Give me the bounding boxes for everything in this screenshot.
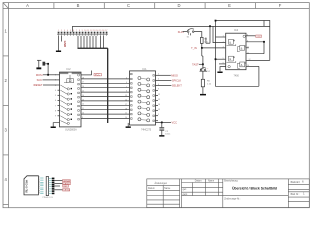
svg-text:F: F	[279, 3, 282, 8]
junction dot S2	[202, 63, 204, 65]
svg-text:74HC273: 74HC273	[141, 128, 152, 131]
net label SENSE1	[63, 180, 71, 182]
ground (IC2)	[51, 127, 56, 129]
junction dot rail A	[209, 25, 211, 27]
svg-text:/RESET: /RESET	[33, 83, 43, 87]
svg-text:DATA2: DATA2	[63, 189, 71, 192]
switch S1	[187, 29, 194, 36]
net label SENSE2	[63, 182, 71, 184]
gate A	[229, 39, 234, 44]
svg-text:100n: 100n	[165, 134, 171, 136]
IC1 right pin stubs	[156, 90, 159, 120]
switch S2 (reed)	[200, 68, 208, 71]
IC1	[130, 67, 156, 131]
svg-text:VCC: VCC	[95, 74, 100, 77]
wire label to switch	[183, 31, 188, 33]
wire R5 to gnd	[202, 87, 204, 94]
vertical chain down	[201, 48, 203, 56]
svg-text:14: 14	[125, 100, 127, 102]
svg-text:Name: Name	[208, 180, 215, 182]
junction dot IC4 row3	[215, 58, 217, 60]
bus horizontal	[78, 47, 108, 49]
svg-text:SELEKT: SELEKT	[172, 84, 182, 88]
channel wires IC2 to IC1	[81, 79, 130, 119]
rail A wire (vcc rail)	[73, 26, 270, 31]
wire label to dot	[199, 63, 203, 65]
IC2 left pin stubs	[58, 75, 60, 116]
svg-text:TAST: TAST	[192, 62, 199, 66]
frame left band line	[8, 3, 10, 208]
svg-text:1: 1	[223, 36, 224, 38]
IC1 internal circles	[138, 77, 150, 122]
svg-text:IC4: IC4	[234, 28, 239, 32]
svg-text:12: 12	[90, 30, 92, 32]
frame top band dividers	[53, 3, 55, 9]
wire to IC4 pin	[202, 47, 226, 49]
svg-text:Zeichnungs-Nr.:: Zeichnungs-Nr.:	[224, 198, 241, 201]
pad wires + red labels	[54, 181, 62, 190]
junction dot	[215, 20, 217, 22]
svg-text:gez.: gez.	[183, 189, 188, 191]
svg-text:8: 8	[126, 91, 127, 93]
svg-text:Blatt Nr.:: Blatt Nr.:	[291, 193, 300, 196]
module pin numbers	[39, 177, 40, 195]
frame top band line	[3, 8, 309, 10]
pad squares	[52, 178, 55, 195]
IC1 inner right pin squares	[153, 75, 155, 122]
svg-text:IC1: IC1	[143, 67, 148, 71]
connector pin numbers (red)	[58, 30, 107, 32]
svg-text:14: 14	[96, 30, 98, 32]
svg-text:15: 15	[99, 30, 101, 32]
IC4 right wires	[246, 21, 269, 67]
wire S2 to R5	[202, 72, 204, 80]
IC2 channel dots	[71, 88, 72, 120]
svg-text:ULN2803A: ULN2803A	[65, 128, 77, 131]
gate D	[240, 62, 245, 67]
svg-text:VCC: VCC	[172, 121, 178, 125]
svg-text:4: 4	[223, 47, 224, 49]
svg-text:1: 1	[58, 30, 59, 32]
IC4 gnd	[220, 67, 226, 72]
svg-text:16: 16	[102, 30, 104, 32]
IC2 left pin numbers	[55, 75, 57, 118]
IC4 left wires	[213, 26, 225, 64]
wire R4 down to dot	[201, 43, 203, 48]
svg-text:7400: 7400	[234, 75, 240, 78]
svg-text:18: 18	[125, 108, 127, 110]
svg-text:MOSI: MOSI	[36, 73, 43, 77]
svg-text:5: 5	[223, 58, 224, 60]
svg-text:D: D	[177, 3, 180, 8]
svg-text:7: 7	[126, 86, 127, 88]
IC2 input wires + red labels	[43, 75, 58, 85]
IC1 right pin numbers	[158, 73, 161, 116]
svg-text:3: 3	[126, 78, 127, 80]
junction dot IC4	[263, 41, 265, 43]
resistor R5	[201, 79, 204, 87]
svg-text:6: 6	[73, 30, 74, 32]
svg-text:SCK: SCK	[37, 78, 43, 82]
long net wire to gate output	[216, 26, 259, 86]
module pin stubs (teal)	[40, 178, 43, 194]
svg-text:C: C	[127, 3, 130, 8]
svg-text:11: 11	[125, 113, 127, 115]
svg-text:T_IN: T_IN	[191, 46, 197, 50]
transistor T1 marks	[205, 38, 207, 44]
jumper symbol near IC2	[36, 60, 49, 75]
svg-text:gepr.: gepr.	[183, 193, 188, 196]
svg-text:SPICLK: SPICLK	[172, 79, 181, 83]
svg-text:9: 9	[223, 63, 224, 65]
frame left band dividers	[3, 55, 9, 57]
svg-text:11: 11	[87, 30, 89, 32]
svg-text:Bezeichnung: Bezeichnung	[224, 180, 238, 182]
ground (IC4)	[217, 72, 222, 74]
IC4 pin numbers	[223, 35, 251, 68]
svg-text:&: &	[241, 46, 243, 50]
strip to pad links	[49, 178, 52, 193]
svg-text:2: 2	[223, 41, 224, 43]
svg-text:RL-5-Gbit: RL-5-Gbit	[24, 180, 28, 193]
svg-text:4: 4	[67, 30, 68, 32]
svg-text:B: B	[77, 3, 80, 8]
IC2 right pin numbers	[82, 77, 84, 119]
svg-text:Übersicht / Block Schaltbild: Übersicht / Block Schaltbild	[232, 186, 277, 191]
svg-text:13: 13	[93, 30, 95, 32]
junction dot T_IN	[201, 47, 203, 49]
IC1 right wires + red labels	[156, 75, 172, 85]
title block	[147, 179, 309, 208]
IC2 COM wire + tick	[81, 74, 92, 76]
svg-text:8: 8	[79, 30, 80, 32]
resistor R4	[201, 37, 204, 43]
net label VCC	[94, 74, 102, 76]
svg-text:E: E	[228, 3, 231, 8]
IC1 bottom right wire + dot	[156, 121, 172, 123]
IC1 inner left pin squares	[131, 73, 133, 119]
gate C	[229, 56, 234, 61]
svg-text:A: A	[26, 3, 29, 8]
svg-text:Blattzahl:: Blattzahl:	[291, 181, 301, 184]
connector SV1 pin strip	[57, 32, 108, 36]
power pin circle	[243, 35, 245, 37]
frame column letters	[26, 3, 282, 8]
IC2 channels	[60, 85, 69, 125]
wire switch to R4	[194, 32, 202, 38]
svg-text:Änderungen: Änderungen	[155, 182, 168, 185]
bus entry wires from connector	[78, 36, 104, 49]
frame corner diagonal	[3, 3, 9, 9]
IC1 internal links	[141, 78, 147, 120]
svg-text:17: 17	[105, 30, 107, 32]
svg-text:VCC: VCC	[256, 36, 261, 38]
svg-text:MISO: MISO	[171, 73, 178, 77]
net label SENSE4	[63, 189, 70, 191]
net label VCC3	[256, 35, 262, 37]
svg-text:GND: GND	[63, 41, 67, 47]
junction stub at 215.5	[215, 21, 217, 27]
capacitor C2	[159, 122, 171, 136]
frame row numbers	[5, 29, 8, 183]
IC1 left pin numbers	[125, 78, 127, 120]
gate B	[240, 45, 245, 50]
net label SENSE3	[63, 185, 69, 187]
svg-text:7: 7	[76, 30, 77, 32]
svg-text:5: 5	[70, 30, 71, 32]
rail B wire	[216, 21, 270, 61]
wire pin2 stub	[61, 36, 63, 42]
ground (R5)	[200, 94, 206, 96]
svg-text:4: 4	[126, 82, 127, 84]
IC2 inner right pin squares	[78, 74, 80, 120]
svg-text:3: 3	[64, 30, 65, 32]
svg-text:Datum: Datum	[148, 187, 155, 190]
svg-text:Name: Name	[164, 188, 171, 190]
svg-text:10: 10	[125, 117, 127, 119]
ground (top left)	[56, 51, 61, 53]
svg-text:9: 9	[39, 192, 40, 194]
svg-text:17: 17	[125, 104, 127, 106]
IC2 (ULN2803)	[60, 67, 82, 131]
svg-text:9: 9	[82, 30, 83, 32]
IC1 gnd	[127, 123, 129, 127]
svg-text:PINHD 1X9: PINHD 1X9	[43, 197, 54, 199]
IC4 (7400)	[226, 28, 246, 78]
svg-text:10: 10	[84, 30, 86, 32]
svg-text:Datum: Datum	[195, 179, 202, 182]
svg-text:&: &	[241, 63, 243, 67]
pad strip connector	[46, 177, 48, 196]
bus vertical	[107, 48, 109, 123]
svg-text:&: &	[229, 57, 231, 61]
IC2 internal driver box	[67, 79, 74, 83]
svg-text:REF: REF	[63, 186, 68, 188]
svg-text:IC2: IC2	[67, 67, 72, 71]
vertical from rail A	[209, 26, 211, 43]
bottom-left module	[24, 176, 38, 195]
wire pin1 to gnd	[58, 36, 60, 51]
svg-text:&: &	[229, 40, 231, 44]
IC2 gnd wire	[53, 123, 59, 127]
svg-text:13: 13	[125, 95, 127, 97]
svg-text:2: 2	[61, 30, 62, 32]
